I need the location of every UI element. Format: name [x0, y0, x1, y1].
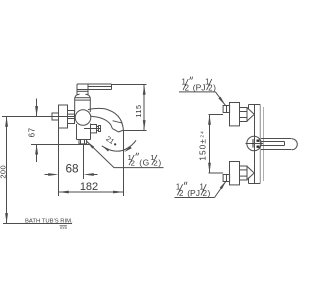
cartridge circle (front view) [247, 136, 261, 150]
top cone (front view) [247, 107, 254, 121]
dimension 115 [112, 84, 147, 86]
body housing collar lines (side view) [75, 97, 91, 99]
body lower (side view) [76, 124, 78, 140]
svg-text:115: 115 [134, 105, 143, 118]
pipe stub in wall (side view) [52, 113, 59, 120]
label 1/2"(PJ1/2) bottom [176, 182, 211, 198]
top cap (front view) [248, 105, 250, 110]
svg-text:): ) [158, 159, 161, 168]
dimension 150+-2 [209, 115, 211, 174]
body plate (front view) [254, 105, 256, 184]
diverter knob (side view) [91, 125, 97, 133]
bottom eccentric fitting (front view) [223, 175, 230, 182]
dimension 67 [36, 99, 38, 117]
body housing shoulders (side view) [75, 94, 80, 98]
svg-text:mm: mm [60, 225, 67, 230]
svg-text:182: 182 [80, 181, 98, 193]
dimension 200 [6, 117, 8, 224]
wall flange escutcheon (side view) [59, 105, 68, 128]
dim text 200 [0, 165, 7, 179]
bottom union nut (front view) [240, 166, 248, 180]
top eccentric fitting (front view) [223, 106, 230, 113]
svg-text:150±24: 150±24 [198, 130, 208, 161]
label 1/2"(G1/2) spout [128, 153, 162, 168]
valve body circle (side view) [75, 110, 91, 126]
angle text 21 deg [104, 134, 119, 148]
faucet body neck (side view) [76, 84, 78, 95]
wire: inlet centerline (side view) [2, 116, 91, 118]
bottom cap (front view) [248, 178, 250, 184]
screw slot [253, 139, 254, 148]
wire: top inlet centerline [209, 114, 224, 116]
spout outlet end (side view) [113, 121, 123, 124]
note: mm [60, 224, 68, 226]
svg-text:BATH TUB'S RIM.: BATH TUB'S RIM. [25, 219, 73, 225]
svg-text:): ) [208, 188, 211, 198]
svg-text:G: G [143, 159, 150, 168]
screw dot top [257, 140, 260, 142]
dim text 115 [134, 105, 143, 118]
top union nut (front view) [240, 108, 248, 122]
dimension 68 [45, 174, 52, 176]
svg-text:67: 67 [27, 127, 36, 137]
svg-text:(PJ: (PJ [187, 188, 200, 198]
bath tub rim line [3, 223, 72, 225]
svg-text:): ) [213, 83, 216, 93]
leader bottom PJ label [175, 197, 215, 199]
dim text 67 [27, 127, 36, 137]
bottom wall flange (front view) [230, 162, 240, 185]
svg-text:(PJ: (PJ [193, 83, 206, 93]
svg-text:200: 200 [0, 165, 7, 179]
wire: bottom inlet centerline [209, 172, 224, 174]
spout inner curve (side view) [91, 116, 113, 128]
spout outer curve (side view) [88, 108, 123, 130]
top wall flange (front view) [230, 103, 240, 126]
hand shower outlet G1/2 (side view) [79, 140, 87, 144]
svg-text:68: 68 [65, 162, 79, 176]
lever handle (side view) [88, 86, 112, 88]
angle arc 21 deg [102, 140, 136, 151]
body housing sides (side view) [74, 98, 76, 112]
wire: wall extension line down [58, 128, 60, 196]
lever handle capsule (front view) [261, 138, 292, 140]
label 1/2"(PJ1/2) top [182, 77, 217, 93]
leader to G1/2 outlet [87, 141, 164, 167]
dim text 150+-24 [198, 130, 208, 161]
dimension 182 [59, 191, 124, 193]
leader top PJ label [179, 91, 216, 93]
union nut (side view) [68, 111, 75, 124]
bottom cone (front view) [247, 166, 254, 180]
screw dot bottom [257, 146, 260, 148]
